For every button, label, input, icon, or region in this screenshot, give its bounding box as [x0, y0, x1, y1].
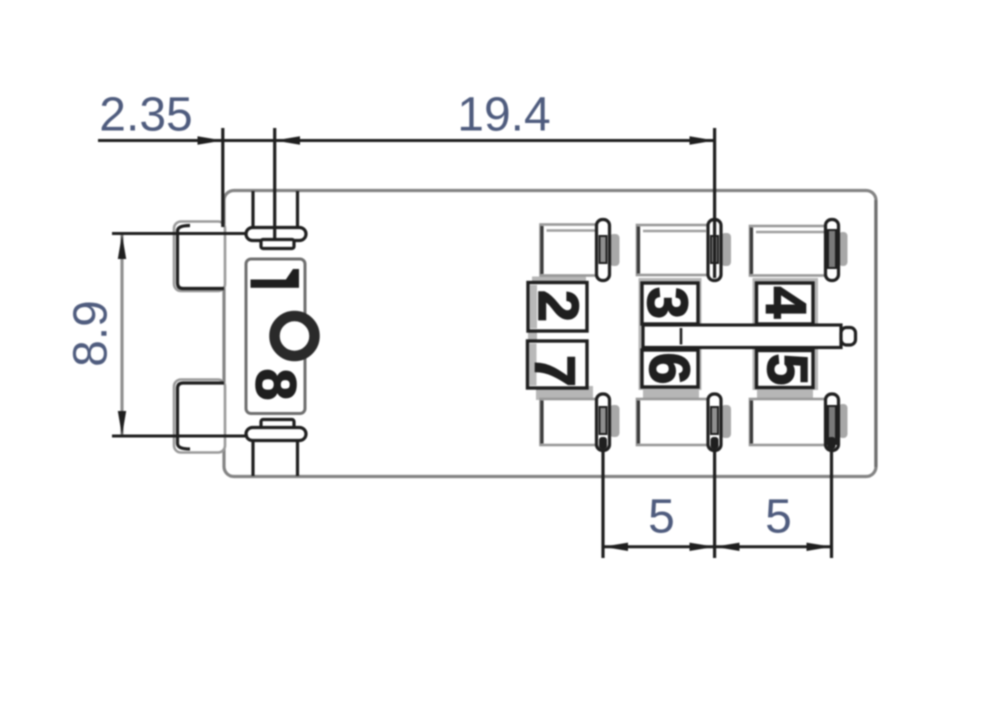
terminal 1 crimp bar: [261, 240, 294, 249]
dimension line bottom: [603, 545, 832, 548]
lead bottom col2 inner: [600, 407, 607, 434]
pad top col2: [541, 225, 597, 276]
arrow down (8.9): [118, 411, 126, 436]
svg-text:3: 3: [635, 287, 699, 319]
lead bottom col2 side tab: [610, 405, 620, 437]
gray underlay behind box 3/6: [639, 278, 702, 390]
terminal 1 lead sides: [251, 191, 254, 228]
left mounting tab top (black edge): [178, 226, 225, 289]
lead bottom col2 dark foot: [599, 437, 607, 449]
left mounting tab bottom (gray layer): [174, 380, 225, 453]
lead top col4 inner: [828, 230, 836, 268]
dimension line top: [98, 139, 716, 142]
svg-text:7: 7: [523, 355, 587, 387]
gray underlay above box 2: [532, 277, 586, 284]
svg-text:5: 5: [765, 491, 792, 544]
svg-text:8: 8: [244, 369, 308, 401]
arrow at E pointing left: [715, 543, 740, 551]
pad top col3: [637, 225, 708, 275]
contact box 2: [528, 283, 587, 332]
lead top col4 stadium: [826, 220, 839, 281]
arrow at C pointing right: [690, 136, 715, 144]
pad bottom col4: [750, 399, 826, 445]
lead bottom col2 stadium: [597, 394, 610, 451]
left mounting tab top (gray layer): [174, 222, 225, 292]
pad top col4: [750, 226, 826, 276]
extension line D: [601, 450, 604, 558]
contact box 3: [642, 283, 698, 324]
relay body outline: [224, 191, 876, 477]
gray underlay below box 7: [536, 386, 593, 400]
terminal 8 crimp bar: [261, 420, 294, 429]
extension line B: [273, 128, 276, 238]
arrow at E pointing right: [690, 543, 715, 551]
body right edge accent: [874, 200, 877, 467]
lead bottom col4 stadium: [826, 394, 839, 451]
svg-text:4: 4: [754, 287, 818, 319]
extension line bottom (8.9): [112, 435, 248, 438]
terminal 8 lead sides: [251, 441, 254, 477]
contact box 7: [528, 341, 588, 388]
lead top col2 side tab: [610, 234, 620, 266]
svg-text:2: 2: [526, 290, 590, 322]
arrow up (8.9): [118, 235, 126, 260]
box 7 inner gray band: [530, 344, 537, 386]
gray underlay below box 5: [757, 386, 813, 400]
pad bottom col3: [637, 399, 708, 445]
lead top col3 inner: [711, 236, 718, 263]
svg-text:8.9: 8.9: [65, 300, 118, 367]
lead bottom col3 inner: [711, 407, 718, 434]
lead bottom col4 inner: [828, 406, 836, 444]
slider bar end cap: [841, 328, 856, 346]
gray underlay left of box 2/7: [528, 284, 537, 384]
extension line F: [830, 450, 833, 558]
contact box 5: [757, 351, 814, 388]
coil module frame: [246, 259, 305, 414]
arrow at A pointing right: [198, 136, 223, 144]
terminal 8 foot stadium: [246, 428, 306, 441]
svg-text:5: 5: [755, 354, 819, 386]
svg-text:5: 5: [648, 491, 675, 544]
slider bar: [643, 325, 841, 348]
arrow at F pointing right: [807, 543, 832, 551]
pad bottom col2: [541, 399, 597, 445]
box 2 inner gray band: [530, 285, 537, 329]
lead bottom col4 side tab: [839, 404, 848, 438]
svg-text:19.4: 19.4: [457, 89, 550, 142]
lead bottom col3 stadium: [708, 394, 721, 451]
left mounting tab bottom (black edge): [178, 383, 225, 449]
vertical dimension line: [120, 234, 123, 436]
lead top col2 inner: [600, 236, 607, 263]
extension line top (8.9): [112, 232, 246, 235]
terminal 1 foot stadium: [246, 228, 306, 241]
contact box 6: [642, 350, 698, 387]
svg-text:2.35: 2.35: [99, 89, 192, 142]
slider bar tick: [680, 328, 683, 345]
lead bottom col3 side tab: [721, 405, 731, 438]
gray underlay behind box 4/5: [753, 278, 819, 390]
lead top col4 side tab: [839, 232, 848, 266]
lead top col2 stadium: [597, 220, 610, 281]
lead bottom col4 dark foot: [828, 437, 836, 449]
extension line E: [713, 452, 716, 558]
arrow at B pointing left: [275, 136, 300, 144]
lead top col3 stadium: [708, 220, 721, 281]
extension line C: [713, 128, 716, 278]
contact box 4: [757, 283, 814, 324]
gray underlay below box 6: [643, 386, 699, 400]
svg-text:6: 6: [637, 353, 701, 385]
lead bottom col3 dark foot: [711, 437, 719, 449]
indicator circle: [275, 316, 315, 356]
extension line A: [221, 128, 224, 227]
lead top col3 side tab: [721, 233, 731, 266]
arrow at D pointing left: [603, 543, 628, 551]
pin number 1: [251, 269, 300, 288]
